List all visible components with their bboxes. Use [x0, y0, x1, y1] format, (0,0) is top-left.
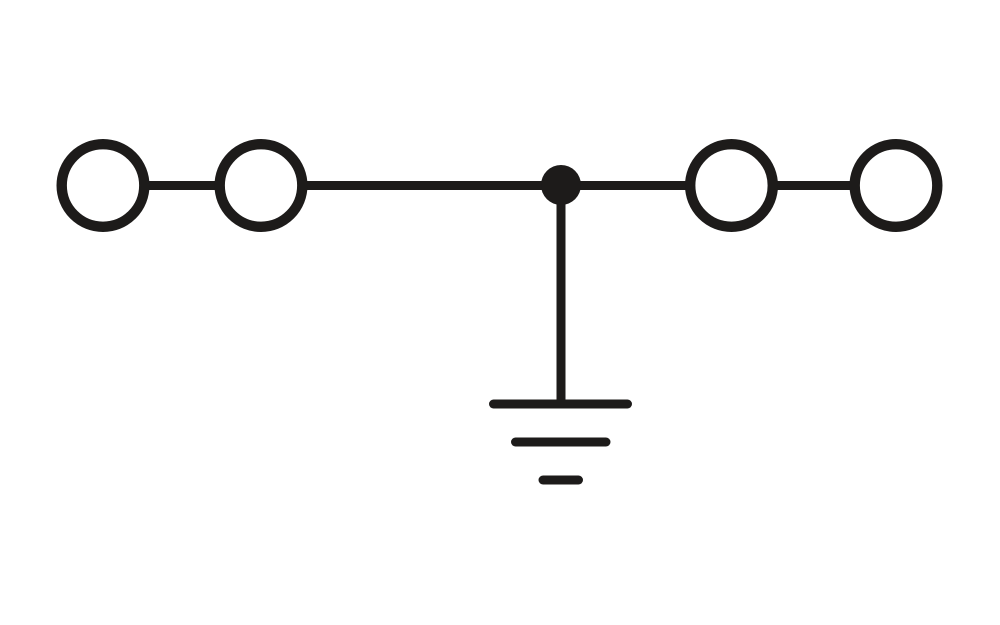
- wire: rail segment between terminal 3 and terminal 4: [776, 181, 853, 190]
- ground: middle bar: [516, 438, 607, 447]
- terminal circle 2: [220, 144, 303, 227]
- wire: left rail segment between terminal 1 and terminal 2: [147, 181, 217, 190]
- ground: bottom bar: [543, 476, 579, 485]
- terminal circle 3: [690, 144, 773, 227]
- wire: vertical drop from junction to ground: [557, 186, 566, 403]
- ground: top bar: [494, 400, 628, 409]
- wire: rail segment from terminal 2 to junction: [305, 181, 561, 190]
- junction node (solder dot): [541, 165, 581, 205]
- wire: rail segment from junction to terminal 3: [561, 181, 688, 190]
- terminal circle 4 (rightmost clamp point): [855, 144, 938, 227]
- terminal circle 1 (leftmost clamp point): [62, 144, 145, 227]
